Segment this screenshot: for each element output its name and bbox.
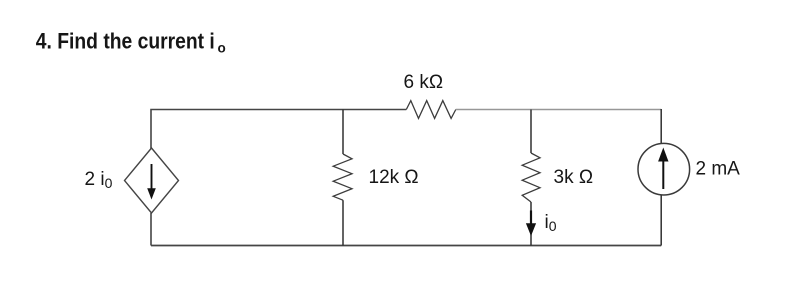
wire: right-middle branch lower bbox=[530, 202, 532, 246]
svg-text:2 mA: 2 mA bbox=[696, 159, 741, 180]
resistor R 12k (vertical zigzag) bbox=[333, 154, 352, 200]
independent current source I1 2mA (circle) bbox=[638, 143, 690, 195]
svg-text:i0: i0 bbox=[545, 212, 557, 234]
wire: bottom rail bbox=[151, 245, 661, 247]
svg-text:2 i0: 2 i0 bbox=[85, 169, 113, 191]
svg-text:4. Find the current i: 4. Find the current i bbox=[36, 29, 215, 54]
wire: left branch lower bbox=[150, 213, 152, 246]
resistor R 6k (horizontal zigzag) bbox=[406, 101, 456, 119]
title: problem statement bbox=[36, 29, 226, 56]
svg-text:6 kΩ: 6 kΩ bbox=[404, 72, 444, 93]
wire: right-middle branch upper bbox=[530, 110, 532, 154]
wire: middle branch lower bbox=[342, 200, 344, 245]
current arrow io (downward) bbox=[526, 211, 536, 237]
dependent current source U1 (diamond) bbox=[125, 148, 179, 213]
wire: top-left segment from node A to resistor bbox=[151, 110, 406, 149]
svg-text:o: o bbox=[218, 41, 226, 56]
wire: top-right segment from resistor to node B (lighter) bbox=[456, 109, 661, 111]
svg-text:12k Ω: 12k Ω bbox=[369, 167, 419, 188]
wire: right branch upper bbox=[660, 109, 662, 144]
svg-text:3k Ω: 3k Ω bbox=[554, 167, 594, 188]
wire: middle branch upper bbox=[342, 110, 344, 155]
resistor R 3k (vertical zigzag) bbox=[522, 153, 540, 202]
wire: right branch lower bbox=[660, 195, 662, 246]
